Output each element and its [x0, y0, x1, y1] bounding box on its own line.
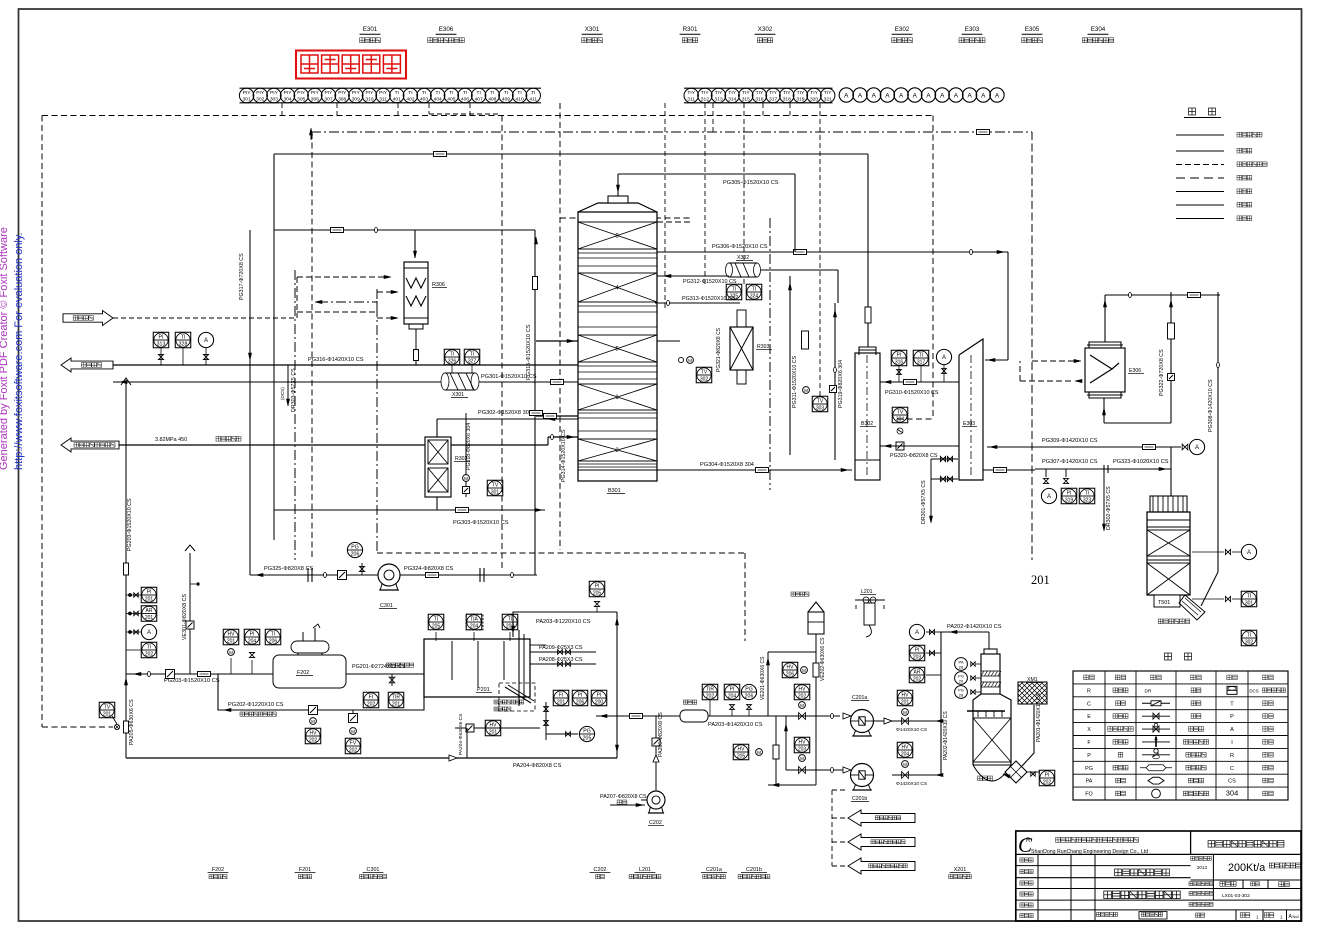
analyzer bubble A2 — [853, 88, 867, 102]
svg-text:202: 202 — [367, 702, 376, 708]
packing section 3 — [578, 222, 657, 249]
svg-text:308: 308 — [338, 97, 346, 103]
svg-text:TI: TI — [508, 616, 512, 622]
svg-text:TIY: TIY — [824, 90, 832, 96]
pipe PA201 from filter to tower — [1033, 705, 1035, 745]
svg-text:TI: TI — [1247, 593, 1251, 599]
bubble PIY-303 — [267, 88, 281, 102]
svg-text:20: 20 — [959, 678, 964, 683]
exchanger X301 — [113, 381, 578, 383]
svg-text:TIY: TIY — [728, 90, 736, 96]
analyzer bubble A3 — [867, 88, 881, 102]
vertical pipe x190 VE301 — [189, 553, 191, 674]
svg-text:202: 202 — [913, 677, 922, 683]
svg-text:404: 404 — [434, 97, 442, 103]
air pump C202 — [641, 799, 647, 801]
hook hoist L201 — [855, 599, 885, 601]
T501 bottom chute — [1179, 595, 1205, 620]
svg-text:310: 310 — [365, 97, 373, 103]
dashed vertical x502 — [501, 116, 503, 571]
lower blower line — [785, 716, 787, 770]
svg-text:L201: L201 — [639, 867, 651, 873]
svg-text:A: A — [1195, 445, 1199, 451]
pipe PG202 return — [218, 674, 424, 710]
svg-text:R303: R303 — [757, 344, 770, 350]
svg-text:E306: E306 — [1129, 368, 1141, 374]
svg-text:E: E — [1087, 714, 1091, 720]
interlock note arrows (3) — [848, 810, 915, 826]
svg-text:315: 315 — [742, 97, 750, 103]
instrument PI-202 — [1039, 770, 1055, 786]
furnace F201 vessel — [424, 639, 530, 697]
svg-text:P201: P201 — [477, 687, 490, 693]
title block company chinese — [1056, 838, 1061, 843]
svg-text:VE301-Φ820X8 CS: VE301-Φ820X8 CS — [182, 593, 188, 640]
svg-text:PA203-Φ1220X10 CS: PA203-Φ1220X10 CS — [536, 619, 591, 625]
svg-text:TI: TI — [434, 616, 438, 622]
instrument bubble row group 2 — [684, 87, 833, 89]
svg-text:A: A — [147, 630, 151, 636]
svg-text:A: A — [1230, 727, 1234, 733]
svg-text:E303: E303 — [965, 26, 980, 33]
svg-text:PG305-Φ1520X10 CS: PG305-Φ1520X10 CS — [723, 180, 779, 186]
analyzer bubble A7 — [921, 88, 935, 102]
analyzer bubble A5 — [894, 88, 908, 102]
bubble TIY-320 — [807, 88, 821, 102]
svg-text:PI: PI — [147, 589, 152, 595]
svg-text:303: 303 — [816, 406, 825, 412]
svg-text:TI: TI — [463, 90, 467, 96]
dashed signal line top y115 — [42, 115, 933, 117]
svg-text:T: T — [1230, 701, 1234, 707]
svg-text:AR: AR — [914, 669, 921, 675]
analyzer A circle — [936, 349, 951, 364]
dash-dot line y132 — [311, 131, 1032, 133]
packing section 5 — [578, 335, 657, 362]
right vertical PG308 — [1217, 292, 1219, 572]
svg-text:PG313-Φ1520X10 CS: PG313-Φ1520X10 CS — [682, 296, 736, 302]
title block right company — [1208, 841, 1215, 848]
svg-text:319: 319 — [1065, 498, 1074, 504]
svg-text:TIY: TIY — [715, 90, 723, 96]
analyzer bubble A4 — [880, 88, 894, 102]
svg-text:A: A — [981, 92, 986, 99]
pipe PG203 — [126, 673, 273, 675]
instrument TV-303 cluster — [812, 396, 828, 412]
title block left grid rows — [1016, 865, 1191, 867]
svg-text:TI: TI — [147, 644, 151, 650]
svg-text:311: 311 — [687, 97, 695, 103]
svg-text:A: A — [967, 92, 972, 99]
svg-text:411: 411 — [529, 97, 537, 103]
pipe PG304 bottom — [578, 469, 852, 471]
bubble TI-409 — [499, 88, 513, 102]
svg-text:2013: 2013 — [1197, 865, 1208, 870]
analyzer bubble A11 — [976, 88, 990, 102]
svg-text:PG324-Φ820X8 CS: PG324-Φ820X8 CS — [404, 566, 454, 572]
svg-text:A: A — [954, 92, 959, 99]
svg-text:P: P — [1087, 753, 1091, 759]
svg-text:PA206-Φ820X8 CS: PA206-Φ820X8 CS — [658, 712, 664, 757]
svg-text:TIY: TIY — [742, 90, 750, 96]
svg-text:Generated by Foxit PDF Creator: Generated by Foxit PDF Creator © Foxit S… — [0, 227, 10, 470]
svg-text:A: A — [844, 92, 849, 99]
svg-text:PA202-Φ1420X10 CS: PA202-Φ1420X10 CS — [947, 624, 1002, 630]
svg-text:TIY: TIY — [687, 90, 695, 96]
svg-text:200: 200 — [595, 700, 604, 706]
svg-text:PG316-Φ1420X10 CS: PG316-Φ1420X10 CS — [308, 357, 364, 363]
svg-text:M: M — [311, 719, 315, 724]
svg-text:PIY: PIY — [379, 90, 388, 96]
svg-text:PIY: PIY — [297, 90, 306, 96]
svg-text:320: 320 — [810, 97, 818, 103]
converter column R301 — [578, 212, 657, 481]
svg-text:M: M — [903, 710, 907, 715]
svg-text:FI: FI — [369, 694, 373, 700]
svg-text:C301: C301 — [380, 603, 393, 609]
bubble TI-401 — [390, 88, 404, 102]
svg-text:28: 28 — [959, 664, 964, 669]
legend line sample — [1176, 150, 1224, 152]
svg-text:TIR: TIR — [706, 686, 714, 692]
oil vessel — [808, 612, 824, 634]
muffler — [680, 710, 708, 722]
svg-text:A: A — [915, 630, 919, 636]
svg-text:TV: TV — [701, 369, 708, 375]
riser PG311 — [789, 276, 791, 455]
dashed vertical x560 (column left) — [559, 103, 561, 550]
svg-text:TIY: TIY — [701, 90, 709, 96]
riser PG203 x126 — [125, 381, 127, 758]
svg-text:PIY: PIY — [366, 90, 375, 96]
svg-text:TI: TI — [271, 631, 275, 637]
svg-text:E305: E305 — [1025, 26, 1040, 33]
svg-text:HV: HV — [490, 722, 498, 728]
instruments FI-201 PI-206 right — [553, 690, 569, 706]
bubble TI-408 — [485, 88, 499, 102]
svg-text:PIY: PIY — [338, 90, 347, 96]
svg-text:R: R — [1087, 688, 1091, 694]
svg-text:M: M — [800, 756, 804, 761]
svg-text:328: 328 — [179, 342, 188, 348]
svg-text:203: 203 — [798, 747, 807, 753]
svg-text:E301: E301 — [363, 26, 378, 33]
svg-text:203: 203 — [913, 655, 922, 661]
exchanger X302 — [729, 263, 757, 277]
svg-text:PG203-Φ1520X10 CS: PG203-Φ1520X10 CS — [127, 498, 133, 551]
svg-text:311: 311 — [379, 97, 387, 103]
svg-text:C201b: C201b — [746, 867, 762, 873]
column nozzle stubs right — [657, 221, 690, 223]
svg-text:E304: E304 — [1091, 26, 1106, 33]
pipe PA206 riser from C202 — [655, 716, 657, 790]
svg-text:304: 304 — [896, 417, 905, 423]
title block center bottom small texts — [1096, 913, 1100, 917]
valve and analyzer on PG309 end — [1182, 444, 1188, 450]
lower bypass loop — [775, 716, 777, 785]
legend line sample — [1176, 191, 1224, 193]
vertical pipe x274 lower — [273, 230, 275, 540]
svg-text:PG318-Φ820X6 304: PG318-Φ820X6 304 — [466, 423, 472, 470]
svg-text:319: 319 — [796, 97, 804, 103]
pipe main hot gas line y154 — [274, 153, 868, 155]
svg-text:PA209-Φ25X3 CS: PA209-Φ25X3 CS — [539, 645, 583, 651]
svg-text:LX01-03-302: LX01-03-302 — [1222, 893, 1250, 899]
instruments PI-316 TI-317 — [891, 350, 907, 366]
svg-text:P: P — [1230, 714, 1234, 720]
inlet flag 来自锅炉水 — [63, 311, 113, 326]
svg-text:PG317-Φ720X8 CS: PG317-Φ720X8 CS — [239, 253, 245, 300]
bubble TI-407 — [471, 88, 485, 102]
svg-text:205: 205 — [583, 735, 592, 741]
svg-text:PA205-Φ630X6 CS: PA205-Φ630X6 CS — [129, 699, 135, 745]
bubble PIY-301 — [239, 88, 253, 102]
svg-text:PG311-Φ1520X10 CS: PG311-Φ1520X10 CS — [792, 355, 798, 408]
outlet flag 去二吸塔 with pipe PG316 — [61, 358, 113, 372]
svg-text:TIY: TIY — [810, 90, 818, 96]
pipe from E306 top — [1104, 295, 1106, 342]
bubble TI-410 — [512, 88, 526, 102]
dash-dot vertical x770 — [769, 218, 771, 490]
svg-text:TIA: TIA — [470, 616, 478, 622]
svg-text:301: 301 — [491, 490, 500, 496]
svg-text:402: 402 — [406, 97, 414, 103]
svg-text:TV: TV — [492, 482, 499, 488]
legend line sample — [1176, 134, 1224, 136]
vertical pipe x868 into B302 — [867, 154, 869, 347]
svg-text:PG307-Φ1420X10 CS: PG307-Φ1420X10 CS — [1042, 459, 1098, 465]
svg-text:PG303-Φ1520X10 CS: PG303-Φ1520X10 CS — [453, 520, 509, 526]
bubble TI-404 — [431, 88, 445, 102]
svg-text:TIY: TIY — [797, 90, 805, 96]
svg-text:A: A — [942, 355, 946, 361]
tower T501 low temp heat recovery — [1147, 512, 1190, 595]
dashed vertical x933 — [932, 116, 934, 420]
instrument bubble row group 1 — [240, 87, 542, 89]
svg-text:206: 206 — [786, 672, 795, 678]
bubble TI-405 — [444, 88, 458, 102]
dash-dot vertical x377 — [376, 289, 378, 553]
svg-text:C: C — [1230, 766, 1234, 772]
svg-text:302: 302 — [700, 377, 709, 383]
drying tower — [984, 649, 997, 654]
bubble TIY-321 — [821, 88, 835, 102]
svg-text:406: 406 — [461, 97, 469, 103]
svg-text:E306: E306 — [439, 26, 454, 33]
svg-text:DR: DR — [1145, 688, 1152, 694]
packing section 1 — [578, 384, 657, 410]
svg-text:TI: TI — [490, 90, 494, 96]
svg-text:201: 201 — [392, 702, 401, 708]
svg-text:PG310-Φ1520X10 CS: PG310-Φ1520X10 CS — [885, 390, 939, 396]
title block right grid — [1191, 879, 1301, 881]
svg-text:TI: TI — [436, 90, 440, 96]
svg-text:E303: E303 — [963, 421, 975, 427]
svg-text:TI: TI — [1085, 490, 1089, 496]
discharge cluster HV-201 upper — [892, 720, 941, 722]
svg-text:PI: PI — [250, 631, 255, 637]
svg-text:304: 304 — [283, 97, 291, 103]
svg-text:200Kt/a: 200Kt/a — [1228, 862, 1265, 874]
svg-text:A: A — [926, 92, 931, 99]
svg-text:PG: PG — [351, 545, 359, 551]
svg-text:403: 403 — [420, 97, 428, 103]
svg-text:AR: AR — [146, 608, 153, 614]
svg-text:PG309-Φ1420X10 CS: PG309-Φ1420X10 CS — [1042, 438, 1098, 444]
pilot air riser x467 — [466, 728, 468, 758]
pipe PG302 — [545, 418, 578, 420]
svg-text:303: 303 — [270, 97, 278, 103]
svg-text:F202: F202 — [212, 867, 224, 873]
vessel R306 superheater — [414, 230, 416, 258]
svg-text:L201: L201 — [861, 589, 873, 595]
bubble PIY-305 — [294, 88, 308, 102]
svg-text:PI: PI — [595, 583, 600, 589]
title block center stage name — [1115, 869, 1122, 876]
svg-text:A: A — [995, 92, 1000, 99]
svg-text:TIY: TIY — [783, 90, 791, 96]
svg-text:316: 316 — [895, 360, 904, 366]
bubble TIY-312 — [698, 88, 712, 102]
svg-text:302: 302 — [256, 97, 264, 103]
analyzer bubble A10 — [962, 88, 976, 102]
pipes PA209 PA208 — [530, 651, 596, 653]
bubble PIY-310 — [362, 88, 376, 102]
red highlight box 高温过热器 — [296, 51, 406, 79]
svg-text:408: 408 — [488, 97, 496, 103]
svg-text:204: 204 — [901, 752, 910, 758]
vessel R303 — [730, 327, 753, 370]
svg-text:E302: E302 — [895, 26, 910, 33]
bubble TIY-311 — [684, 88, 698, 102]
svg-text:204: 204 — [728, 694, 737, 700]
svg-text:X302: X302 — [737, 255, 749, 261]
bubble TIY-319 — [793, 88, 807, 102]
analyzer bubble A12 — [990, 88, 1004, 102]
svg-text:M: M — [800, 703, 804, 708]
dash-dot vertical x295 — [294, 270, 296, 560]
svg-text:PG202-Φ1220X10 CS: PG202-Φ1220X10 CS — [228, 702, 284, 708]
riser PG322 — [1170, 292, 1172, 423]
svg-text:202: 202 — [1043, 780, 1052, 786]
svg-text:PI: PI — [578, 692, 583, 698]
riser x768 with arrow — [767, 652, 769, 716]
bubble TI-411 — [526, 88, 540, 102]
FV-202 branch — [352, 710, 354, 714]
dashed droppers right side — [664, 103, 666, 310]
title block frame — [1016, 831, 1301, 921]
bubble PIY-306 — [308, 88, 322, 102]
bubble PIY-311 — [376, 88, 390, 102]
svg-text:205: 205 — [737, 754, 746, 760]
svg-text:M: M — [464, 476, 468, 481]
ignition branch cluster — [499, 683, 535, 711]
legend title 图例 — [1189, 108, 1196, 115]
pipe PG305 — [618, 173, 795, 175]
svg-text:PIY: PIY — [243, 90, 252, 96]
svg-text:PI: PI — [730, 686, 735, 692]
svg-text:HV: HV — [738, 746, 746, 752]
instruments under PG307 valves — [1041, 488, 1056, 503]
svg-text:205: 205 — [593, 591, 602, 597]
instruments above F202 HV-201 PI-204 TI-206 — [223, 629, 239, 645]
svg-text:TIY: TIY — [756, 90, 764, 96]
bubble TIY-317 — [766, 88, 780, 102]
svg-text:PG320-Φ820X8 CS: PG320-Φ820X8 CS — [890, 453, 938, 459]
instrument PG-206 circle — [347, 542, 362, 557]
svg-text:PG306-Φ1520X10 CS: PG306-Φ1520X10 CS — [712, 244, 768, 250]
left instrument stack PI-201 AR A TI-202 — [141, 587, 157, 603]
svg-text:PG308-Φ1420X10 CS: PG308-Φ1420X10 CS — [1208, 379, 1214, 432]
svg-text:TV: TV — [104, 704, 111, 710]
instruments FI-202 TIR-201 under PG201 — [363, 692, 379, 708]
svg-text:305: 305 — [297, 97, 305, 103]
pipe PG303 — [436, 497, 438, 510]
analyzer bubble A9 — [949, 88, 963, 102]
svg-text:PIY: PIY — [284, 90, 293, 96]
vertical x816 oil line — [815, 634, 817, 716]
svg-text:PG325-Φ820X8 CS: PG325-Φ820X8 CS — [264, 566, 314, 572]
svg-text:B301: B301 — [608, 488, 621, 494]
svg-text:M: M — [757, 750, 761, 755]
svg-text:PA201-Φ1420X10 CS: PA201-Φ1420X10 CS — [1036, 693, 1042, 742]
svg-text:C201b: C201b — [852, 796, 867, 802]
svg-text:A: A — [1047, 494, 1051, 500]
HV-202 cluster on PG202 — [309, 706, 318, 715]
instruments right of T501 — [1192, 551, 1224, 553]
svg-text:HV: HV — [902, 692, 910, 698]
svg-text:306: 306 — [311, 97, 319, 103]
analyzer bubble A8 — [935, 88, 949, 102]
instrument TV-301 — [487, 480, 503, 496]
svg-text:VE202-Φ630X6 CS: VE202-Φ630X6 CS — [820, 637, 826, 681]
svg-text:317: 317 — [769, 97, 777, 103]
inline sensor on dash-dot line — [977, 130, 990, 135]
svg-text:FV: FV — [350, 740, 357, 746]
svg-text:TI: TI — [1247, 632, 1251, 638]
svg-text:205: 205 — [432, 624, 441, 630]
svg-text:PIY: PIY — [270, 90, 279, 96]
dashed corner bottom-left to TV201 — [42, 726, 113, 728]
svg-text:R: R — [1026, 838, 1031, 844]
svg-text:ShanDong RunChang Engineering: ShanDong RunChang Engineering Design Co.… — [1031, 849, 1148, 855]
svg-text:TI: TI — [408, 90, 412, 96]
svg-text:201: 201 — [489, 730, 498, 736]
svg-text:R: R — [1230, 753, 1234, 759]
svg-text:TV: TV — [897, 409, 904, 415]
title block left row labels — [1020, 858, 1024, 862]
svg-text:HV: HV — [902, 744, 910, 750]
svg-text:XM1: XM1 — [1027, 677, 1038, 683]
dashed vertical left x42 — [41, 116, 43, 728]
svg-text:201: 201 — [145, 597, 154, 603]
svg-text:206: 206 — [745, 693, 754, 699]
bubble PIY-304 — [280, 88, 294, 102]
svg-text:201: 201 — [227, 639, 236, 645]
svg-text:TI: TI — [752, 286, 756, 292]
svg-text:314: 314 — [728, 97, 736, 103]
bubble TIY-313 — [711, 88, 725, 102]
legend line sample — [1176, 204, 1224, 206]
vertical pipe x250 — [249, 230, 251, 575]
dashed bottom of control box y553 — [377, 552, 745, 554]
svg-text:A: A — [872, 92, 877, 99]
svg-text:T501: T501 — [1158, 600, 1170, 606]
discharge cluster HV-204 lower — [892, 774, 941, 776]
svg-text:TI: TI — [450, 351, 454, 357]
DR302 drain — [1103, 473, 1105, 528]
svg-text:PI: PI — [1067, 490, 1072, 496]
